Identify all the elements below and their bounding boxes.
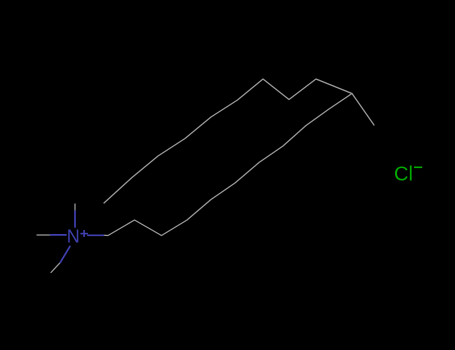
wire: methyl bond left outer gray half xyxy=(37,234,51,236)
svg-text:Cl: Cl xyxy=(394,164,413,186)
wire: N-methyl bond up blue half xyxy=(74,211,76,227)
wire: alkyl chain main path (near-N zigzag, long climb, top zigzag, left return diagonal) xyxy=(103,79,352,236)
node N1 charge: plus sign xyxy=(80,230,88,237)
wire: N-methyl bond left blue half xyxy=(51,234,66,236)
svg-text:N: N xyxy=(67,227,80,247)
wire: methyl bond up outer gray half xyxy=(74,204,76,211)
node Cl1 charge: superscript minus xyxy=(414,166,422,168)
wire: chain tail segment at top right apex xyxy=(352,94,374,126)
wire: methyl bond down-left outer gray half xyxy=(51,262,60,272)
wire: N-chain bond right blue half xyxy=(88,234,103,236)
wire: N-methyl bond down-left blue half xyxy=(60,246,70,262)
